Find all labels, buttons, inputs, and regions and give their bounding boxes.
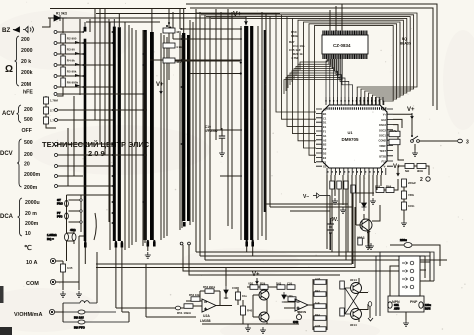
wire bar B rails: [110, 22, 125, 250]
resistor VD1: [248, 282, 258, 290]
battery BT1: [327, 218, 334, 250]
svg-text:630k: 630k: [291, 34, 298, 38]
wire socket right links: [420, 262, 430, 270]
wire bus left of C: [143, 30, 145, 246]
wire DCA taps: [69, 200, 80, 222]
switch contact ohm 200k: [54, 64, 57, 67]
svg-text:10 A: 10 A: [26, 260, 37, 266]
svg-text:220u: 220u: [400, 238, 407, 242]
contact DCA 20m: [80, 210, 82, 212]
wire 10A down: [62, 272, 64, 290]
display zebra pins top: [323, 31, 367, 36]
wire top outer rail 2: [190, 8, 433, 106]
svg-text:AU2: AU2: [315, 324, 321, 328]
wire ff links: [359, 278, 368, 322]
switch wafer bar S1f: [182, 33, 185, 221]
svg-text:R29: R29: [260, 282, 266, 286]
resistor R5: [61, 67, 77, 76]
junction R10 top: [168, 22, 170, 24]
wire sw gnd: [414, 144, 416, 150]
diode D7: [282, 292, 286, 302]
contact DCV 2000m: [55, 175, 58, 178]
svg-text:0.22u: 0.22u: [286, 294, 293, 298]
display zebra pins bottom: [323, 55, 367, 60]
svg-text:S420N: S420N: [297, 310, 306, 314]
svg-text:DM9705: DM9705: [341, 137, 359, 142]
svg-text:E1: E1: [323, 125, 327, 129]
resistor Rf1: [340, 281, 345, 289]
svg-text:V−: V−: [303, 194, 309, 200]
resistor R40: [241, 306, 253, 315]
resistor R8 10: [63, 310, 116, 320]
terminal 3: [458, 139, 469, 145]
wire Q cross1: [266, 300, 268, 313]
svg-text:PT: PT: [57, 211, 61, 215]
wire socket right link: [420, 281, 434, 296]
resistor R6: [61, 78, 79, 87]
wire long rails left of display: [262, 12, 270, 211]
wire ladder rails: [313, 279, 327, 330]
svg-text:R4 9k: R4 9k: [67, 59, 75, 63]
wire COM up to shunts: [79, 236, 84, 282]
switch contact ohm 2000: [54, 42, 57, 45]
capacitor C30: [236, 292, 248, 300]
svg-text:20 m: 20 m: [25, 211, 37, 217]
ground right column: [401, 220, 407, 226]
resistor R9 PTC: [63, 320, 129, 330]
wire bus left of D: [180, 33, 182, 230]
svg-text:COM: COM: [26, 281, 39, 287]
op-amp IC U1 DM9705 body: [322, 105, 387, 168]
wire bus right of B: [129, 25, 136, 248]
switch SW power: [411, 136, 420, 142]
resistor R64: [386, 185, 394, 193]
resistor R3: [61, 45, 75, 54]
bar B top link: [85, 19, 114, 27]
resistor Rtop: [358, 238, 363, 245]
svg-text:BQ: BQ: [402, 37, 407, 41]
V+ supply top: [233, 11, 247, 25]
capacitor Cb1: [344, 181, 349, 189]
wire ladder bottom: [57, 90, 63, 96]
terminal 10A jack: [50, 258, 55, 263]
wire Q c-e: [266, 287, 268, 324]
bar feet dots: [84, 240, 254, 244]
wire DCA chain vertical: [67, 195, 115, 261]
wire ladder top: [62, 18, 64, 33]
svg-text:C51: C51: [394, 303, 399, 307]
svg-text:R51 10kΩ: R51 10kΩ: [177, 311, 191, 315]
hFE socket outer nest: [376, 252, 434, 316]
svg-text:C2: C2: [323, 147, 327, 151]
diode D5: [362, 203, 367, 211]
resistor R12: [163, 58, 184, 64]
fuse PT PTC: [57, 211, 68, 219]
wire battery rail: [329, 196, 331, 251]
svg-text:G2: G2: [323, 165, 327, 169]
svg-text:R8 PTC: R8 PTC: [74, 326, 86, 330]
LCD display CZ-0834: [322, 35, 368, 54]
diode D6: [224, 286, 228, 298]
svg-text:C40: C40: [293, 320, 299, 324]
dark rail right of bar E: [264, 30, 266, 212]
wire bus2: [200, 256, 425, 278]
svg-text:20: 20: [24, 162, 30, 168]
svg-text:U2A: U2A: [203, 314, 210, 318]
svg-text:VRG: VRG: [408, 193, 414, 197]
wire feedback: [200, 291, 232, 306]
wire IC bottom fanout: [327, 175, 381, 264]
transistor Q4: [259, 312, 269, 322]
wire vert f1: [94, 9, 96, 120]
ground opamp mid: [245, 325, 251, 331]
wire Vohm loop left: [62, 303, 64, 322]
svg-text:R40: R40: [247, 309, 253, 313]
svg-text:F12: F12: [382, 160, 387, 164]
svg-text:V+: V+: [407, 107, 415, 113]
cross coupling wires: [345, 288, 359, 314]
capacitor Cb2: [351, 185, 356, 193]
IC U1 top pins: [326, 97, 383, 105]
wire opamp bottom rail: [202, 323, 299, 325]
wire top to first: [89, 19, 91, 32]
wire U2B io: [284, 302, 313, 308]
resistor ladder r5: [314, 324, 326, 331]
label R50 column: [289, 30, 305, 60]
resistor ladder r3: [314, 301, 326, 308]
wire vert f3: [104, 9, 106, 155]
ground near Rtop: [368, 243, 374, 249]
wire D6: [225, 268, 227, 299]
wire R62 row: [398, 166, 429, 175]
svg-text:10: 10: [25, 231, 31, 237]
wire bus4: [96, 263, 352, 265]
wire loop bundle around display: [276, 13, 417, 162]
hFE socket body: [399, 256, 420, 296]
contact DCV 200: [55, 154, 58, 157]
svg-text:200: 200: [24, 152, 33, 158]
wire 10A feed: [56, 261, 63, 264]
svg-text:RQ =: RQ =: [47, 237, 54, 241]
svg-text:C1: C1: [323, 116, 327, 120]
svg-text:R2 900: R2 900: [67, 37, 77, 41]
capacitor C40 electrolytic: [293, 314, 302, 324]
svg-text:AU3: AU3: [315, 277, 321, 281]
svg-text:R43: R43: [315, 289, 320, 293]
wire ACV chain: [46, 96, 56, 128]
contact ACV 200: [55, 109, 58, 112]
svg-text:R52 10k: R52 10k: [189, 293, 200, 297]
wire DCA contact column: [80, 195, 82, 232]
wire rail y312 join: [122, 311, 129, 313]
wire C40: [298, 311, 300, 314]
wire bus right of D: [190, 20, 193, 225]
svg-text:V/OHM/mA: V/OHM/mA: [14, 312, 42, 318]
switch contact ohm 20M: [54, 75, 57, 78]
wire Q1 base: [356, 224, 362, 226]
svg-text:V+: V+: [252, 272, 260, 278]
svg-text:200m: 200m: [24, 185, 38, 191]
wire to terminal 3: [419, 140, 457, 142]
wire V+ opamp rail: [247, 283, 281, 287]
wire bundle display-bottom fanout: [284, 59, 342, 94]
svg-text:R44: R44: [315, 313, 320, 317]
svg-text:4.7M: 4.7M: [291, 56, 298, 60]
wire display top feeds: [330, 4, 342, 31]
capacitor C52: [402, 202, 415, 210]
ground opamp2: [260, 327, 266, 333]
svg-text:430: 430: [176, 30, 181, 34]
svg-text:ACV: ACV: [2, 111, 15, 117]
wire bar feet drops: [85, 247, 252, 313]
svg-text:℃: ℃: [24, 244, 32, 252]
IC U1 left pin labels: [323, 108, 327, 169]
svg-text:BP: BP: [382, 108, 386, 112]
svg-text:0.05: 0.05: [67, 266, 73, 270]
svg-text:9NΩ: 9NΩ: [417, 169, 424, 173]
svg-text:LM358: LM358: [200, 319, 211, 323]
svg-text:OSC1: OSC1: [379, 134, 387, 138]
wire C10: [221, 128, 223, 150]
svg-text:46.7k: 46.7k: [176, 60, 184, 64]
wire vert f4: [108, 19, 110, 222]
wire DCV feeds: [57, 144, 147, 186]
switch wafer bar S1a: [84, 39, 87, 241]
wire shunt pair: [67, 230, 75, 244]
resistor ladder r2: [314, 289, 326, 296]
arrow mark: [368, 318, 373, 321]
svg-text:100u: 100u: [425, 303, 431, 307]
wire risers mid: [183, 245, 420, 275]
contact DCV 20: [55, 165, 58, 168]
switch wafer bar S1a stub: [84, 27, 87, 32]
wire bar E left rail: [240, 26, 242, 240]
wire curve down: [94, 213, 96, 240]
resistor R62: [405, 164, 414, 174]
wire ladder taps: [57, 32, 63, 90]
switch contact ohm 200: [54, 31, 57, 34]
svg-text:R64: R64: [386, 185, 392, 189]
svg-text:200: 200: [24, 107, 33, 113]
wire v- branch: [290, 210, 330, 212]
svg-text:R5 90k: R5 90k: [67, 70, 77, 74]
IC bottom pin labels: [328, 171, 383, 173]
wire D5: [363, 200, 365, 219]
contact DCV 200m: [55, 185, 58, 188]
resistor R7: [44, 97, 59, 104]
svg-text:BT2B: BT2B: [379, 154, 386, 158]
V+ supply right: [407, 107, 415, 119]
svg-text:R53 991k: R53 991k: [203, 285, 216, 289]
wire long bus mid: [196, 9, 210, 260]
wire top outer rail: [186, 4, 437, 110]
svg-text:GT: GT: [57, 198, 61, 202]
svg-text:G12: G12: [381, 118, 386, 122]
svg-text:OFF: OFF: [22, 128, 32, 134]
svg-text:COM2: COM2: [379, 139, 387, 143]
switch wafer bar S1h: [244, 26, 248, 240]
wire bar D top link: [183, 9, 185, 33]
brace DCA ranges: [18, 198, 23, 236]
ground ic pin2: [370, 198, 376, 204]
svg-text:VREF: VREF: [379, 144, 386, 148]
svg-text:2000: 2000: [21, 48, 33, 54]
wire hfe down: [73, 96, 75, 176]
resistor Rb2: [337, 181, 342, 189]
wire Q bases: [253, 295, 259, 317]
dots near R10 top: [166, 25, 172, 29]
ground switch: [412, 150, 418, 156]
svg-text:9014: 9014: [350, 278, 357, 282]
svg-text:500: 500: [24, 140, 33, 146]
resistor Rb1: [330, 181, 335, 189]
svg-text:D43: D43: [276, 282, 282, 286]
wire socket gnd: [405, 312, 407, 320]
svg-text:E2: E2: [323, 156, 327, 160]
svg-text:TEST: TEST: [379, 149, 386, 153]
wire right column: [403, 187, 405, 220]
diode D1: [54, 15, 67, 21]
wire V+ right down: [411, 118, 413, 136]
svg-text:4.7/250V: 4.7/250V: [205, 129, 219, 133]
wire BZ to top: [42, 18, 50, 27]
ground socket: [403, 320, 409, 326]
wire R63 row: [384, 179, 398, 190]
svg-text:AUS: AUS: [394, 307, 400, 311]
svg-text:hFE: hFE: [23, 90, 33, 96]
svg-text:1uF: 1uF: [315, 301, 320, 305]
svg-text:R63: R63: [375, 185, 381, 189]
wire bus5: [96, 267, 355, 269]
resistor R63: [417, 164, 426, 174]
svg-text:B2: B2: [323, 143, 327, 147]
contact ACV 500: [55, 119, 58, 122]
svg-text:220uF: 220uF: [408, 181, 416, 185]
V+ supply opamp: [252, 272, 260, 284]
svg-text:PRC: PRC: [57, 202, 63, 206]
svg-text:D2: D2: [323, 152, 327, 156]
svg-text:BZ: BZ: [2, 27, 10, 34]
svg-text:VD1: VD1: [248, 282, 254, 286]
resistor R53: [203, 285, 216, 293]
wire bus right of E: [262, 30, 266, 240]
ground COM: [76, 291, 82, 297]
switch contact ohm extra: [54, 86, 57, 89]
svg-text:Ω: Ω: [5, 64, 13, 75]
wiper arrows: [75, 41, 80, 87]
svg-text:G1: G1: [323, 134, 327, 138]
opamp U2A: [202, 299, 216, 312]
wire fuse riser: [96, 252, 98, 303]
wire R12 to bar E: [175, 61, 240, 176]
ground ic pin: [332, 198, 338, 204]
hFE socket pins: [402, 261, 414, 289]
svg-text:200: 200: [21, 37, 30, 43]
wire acv down: [67, 128, 69, 186]
contact DCV 500: [55, 143, 58, 146]
svg-text:200m: 200m: [25, 221, 39, 227]
wire base feed: [356, 193, 374, 225]
terminal temp input: [175, 306, 180, 310]
svg-text:PTC: PTC: [57, 215, 62, 219]
svg-text:XTAL: XTAL: [390, 129, 397, 133]
svg-text:A1: A1: [323, 108, 327, 112]
opamp U2B: [295, 299, 308, 311]
fuse GT PRC: [57, 198, 68, 207]
junction sw: [411, 135, 413, 137]
capacitor C51: [402, 179, 417, 187]
wire: [247, 324, 249, 325]
svg-text:2000u: 2000u: [25, 200, 40, 206]
wire R10-R12 chain: [168, 9, 170, 81]
svg-text:DCV: DCV: [0, 151, 13, 157]
wire top rail B: [86, 21, 160, 23]
svg-text:C30: C30: [232, 286, 238, 290]
svg-text:B1: B1: [323, 112, 327, 116]
resistor shunt 0.05: [61, 264, 73, 272]
transistor Q1 9013: [360, 219, 372, 233]
wire vert f2: [99, 9, 101, 144]
socket lower box: [388, 296, 424, 312]
terminal V-Ohm jack: [49, 309, 54, 314]
riser tops: [180, 242, 190, 245]
svg-text:100n: 100n: [408, 204, 415, 208]
resistor R8: [44, 107, 58, 114]
svg-text:2 0 9: 2 0 9: [88, 149, 105, 158]
svg-text:R6 900k: R6 900k: [67, 81, 79, 85]
resistor R11: [163, 43, 182, 49]
ground C10: [219, 150, 225, 156]
brace ACV ranges: [17, 105, 22, 123]
brace ohm ranges: [15, 36, 20, 86]
brace DCV ranges: [17, 139, 22, 187]
wire wiper feed vertical: [79, 19, 81, 95]
transistor Q6: [351, 309, 362, 320]
terminal 2: [420, 177, 430, 183]
svg-text:CZ-0834: CZ-0834: [333, 43, 351, 48]
switch contact ohm 20k: [54, 53, 57, 56]
wire cap 220u row: [390, 245, 440, 266]
fuse F1: [63, 301, 97, 303]
bar feet: [84, 222, 254, 248]
terminal COM jack: [50, 279, 55, 284]
buzzer diode symbol: [13, 27, 34, 33]
ground Q1: [365, 243, 371, 249]
wire COM feed: [56, 282, 79, 290]
wire top bundle left: [96, 13, 280, 15]
switch contact hFE: [54, 93, 57, 96]
capacitor 220u: [400, 238, 412, 248]
wire C30: [237, 287, 239, 305]
svg-text:20 k: 20 k: [21, 59, 31, 65]
switch wafer bar S1i: [250, 26, 253, 240]
svg-text:2000m: 2000m: [24, 172, 41, 178]
wire R40: [242, 300, 244, 324]
switch wafer bar S1d: [144, 30, 147, 240]
resistor Rf2: [340, 308, 345, 316]
wire ACV feeds: [57, 110, 147, 120]
capacitor C10: [219, 136, 225, 138]
scan artifact corner: [0, 327, 12, 335]
regulator: [402, 191, 415, 199]
wire bus mid3: [228, 9, 232, 229]
resistor R4: [61, 56, 75, 65]
wire Q1 collector: [372, 205, 380, 221]
wire IC bottom drops: [332, 189, 353, 264]
svg-text:200k: 200k: [21, 70, 33, 76]
IC U1 right pin labels: [379, 108, 387, 169]
svg-text:500: 500: [24, 117, 33, 123]
